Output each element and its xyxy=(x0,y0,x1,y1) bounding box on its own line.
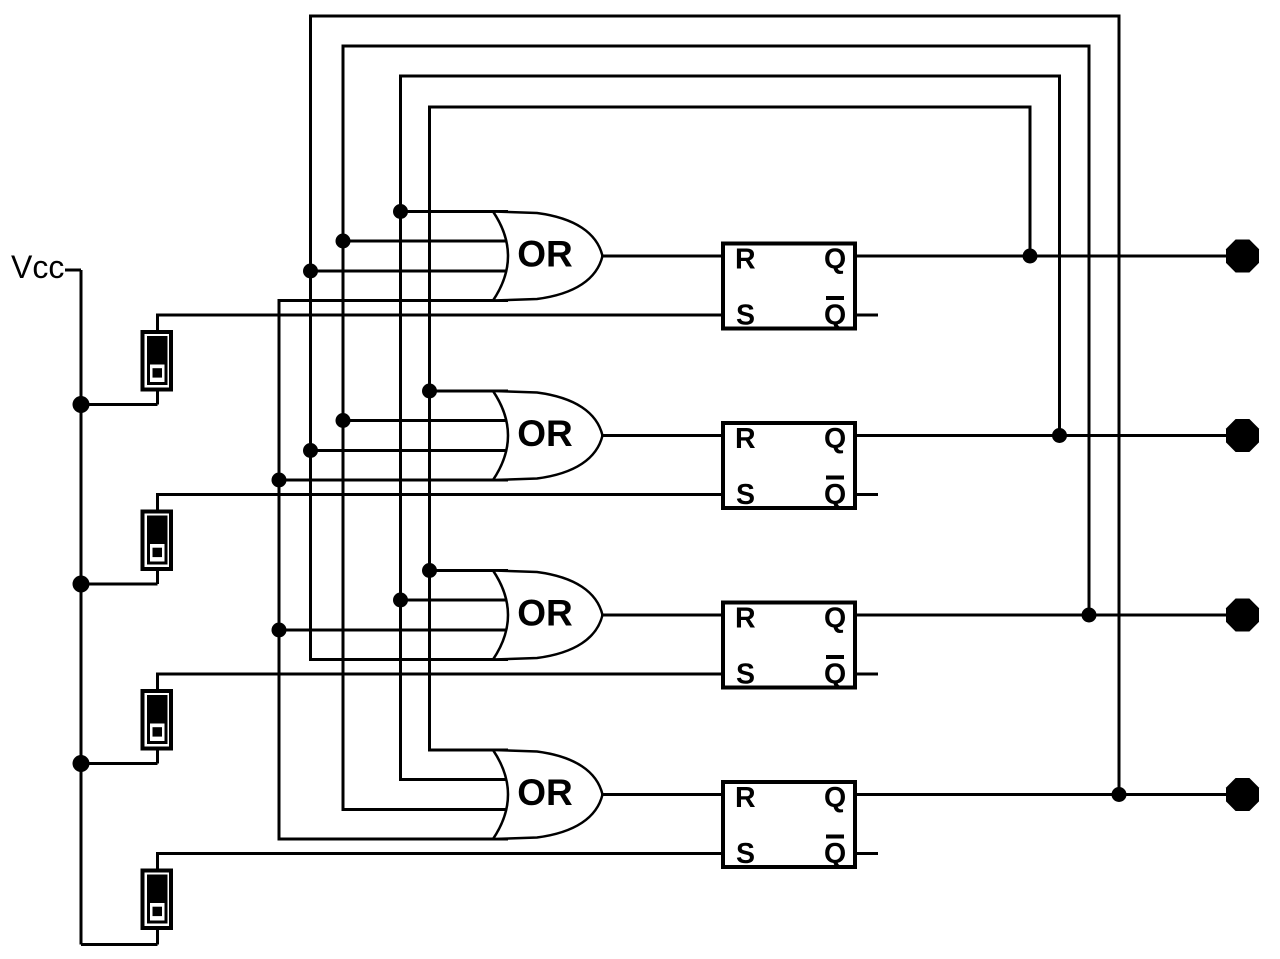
svg-text:Q: Q xyxy=(824,838,846,870)
wire FF3 Qbar stub xyxy=(856,673,878,676)
junction Q3 output pickup xyxy=(1082,608,1097,623)
wire Q2 tap to U3 input xyxy=(401,599,509,602)
junction Q3 tap row1 xyxy=(336,234,351,249)
svg-text:Q: Q xyxy=(824,244,846,276)
junction Q4 tap row2 xyxy=(303,443,318,458)
svg-text:R: R xyxy=(735,244,756,276)
junction bus-SW2 xyxy=(73,576,90,593)
wire Q4 tap to U2 input xyxy=(311,449,509,452)
or-gate U2 xyxy=(493,391,603,480)
wire Q1 tap to U2 input xyxy=(430,390,509,393)
wire U3 output to FF3 R input xyxy=(601,614,722,617)
pushbutton switch SW3 xyxy=(143,691,172,749)
wire bus bottom rail xyxy=(81,943,158,946)
junction Q1 tap row3 xyxy=(422,563,437,578)
sr-latch FF2 xyxy=(723,423,855,511)
svg-text:S: S xyxy=(736,479,755,511)
svg-text:Q: Q xyxy=(824,782,846,814)
junction Q1 tap row2 xyxy=(422,384,437,399)
or-gate U4 xyxy=(493,750,603,839)
wire feedback loop Q4 (up over top, down left, into OR input) xyxy=(311,16,1120,795)
wire SW1 bottom stub xyxy=(156,390,159,405)
wire Vcc stub xyxy=(65,269,81,272)
svg-text:R: R xyxy=(735,782,756,814)
or-gate U1 xyxy=(493,212,603,301)
wire netX to U3 third input xyxy=(279,629,508,632)
wire Q1 tap to U3 input xyxy=(430,569,509,572)
junction Q2 output pickup xyxy=(1052,428,1067,443)
junction Q2 tap row3 xyxy=(393,593,408,608)
output terminal OUT3 xyxy=(1226,599,1259,632)
wire SW3 top stub xyxy=(156,674,159,691)
wire U2 output to FF2 R input xyxy=(601,434,722,437)
svg-text:OR: OR xyxy=(517,234,573,275)
svg-text:S: S xyxy=(736,838,755,870)
wire FF2 Qbar stub xyxy=(856,493,878,496)
junction bus-SW3 xyxy=(73,755,90,772)
wire bus to SW2 xyxy=(81,583,158,586)
svg-text:R: R xyxy=(735,423,756,455)
svg-text:Q: Q xyxy=(824,299,846,331)
wire feedback loop Q2 (up over top, down left, into OR input) xyxy=(401,76,1060,780)
wire FF1 Q output xyxy=(856,255,1244,258)
wire SW2 bottom stub xyxy=(156,570,159,585)
wire SW3 to FF3 S input xyxy=(156,673,722,676)
wire Q4 tap to U1 input xyxy=(311,270,509,273)
pushbutton switch SW2 xyxy=(143,512,172,570)
svg-text:OR: OR xyxy=(517,413,573,454)
wire bus to SW3 xyxy=(81,762,158,765)
svg-text:S: S xyxy=(736,658,755,690)
junction bus-SW1 xyxy=(73,396,90,413)
wire U1 output to FF1 R input xyxy=(601,255,722,258)
junction Q4 tap row1 xyxy=(303,264,318,279)
wire netX to U2 bottom input xyxy=(279,479,508,482)
output terminal OUT2 xyxy=(1226,419,1259,452)
wire netX vertical U1 bottom input to U4 bottom input xyxy=(279,301,508,840)
junction netX-U2 xyxy=(272,473,287,488)
svg-text:R: R xyxy=(735,603,756,635)
wire feedback loop Q1 (up over top, down left, into OR input) xyxy=(430,107,1031,750)
wire SW4 bottom stub xyxy=(156,929,159,945)
pushbutton switch SW4 xyxy=(143,871,172,929)
or-gate U3 xyxy=(493,571,603,660)
output terminal OUT1 xyxy=(1226,240,1259,273)
wire SW3 bottom stub xyxy=(156,749,159,764)
power bus Vcc vertical xyxy=(80,270,83,945)
wire Q3 tap to U1 input xyxy=(343,240,508,243)
wire U4 output to FF4 R input xyxy=(601,793,722,796)
svg-text:OR: OR xyxy=(517,593,573,634)
wire FF4 Q output xyxy=(856,793,1244,796)
sr-latch FF1 xyxy=(723,244,855,332)
wire Q3 tap to U2 input xyxy=(343,419,508,422)
svg-text:Q: Q xyxy=(824,423,846,455)
wire bus to SW1 xyxy=(81,403,158,406)
wire SW4 top stub xyxy=(156,854,159,871)
wire SW2 to FF2 S input xyxy=(156,493,722,496)
wire feedback loop Q3 (up over top, down left, into OR input) xyxy=(343,46,1089,810)
svg-text:S: S xyxy=(736,299,755,331)
junction Q1 output pickup xyxy=(1023,249,1038,264)
wire SW2 top stub xyxy=(156,495,159,512)
sr-latch FF4 xyxy=(723,782,855,870)
junction Q2 tap row1 xyxy=(393,204,408,219)
wire FF3 Q output xyxy=(856,614,1244,617)
wire Q2 tap to U1 input xyxy=(401,210,509,213)
svg-text:OR: OR xyxy=(517,772,573,813)
svg-text:Vcc: Vcc xyxy=(11,249,64,285)
junction Q4 output pickup xyxy=(1112,787,1127,802)
sr-latch FF3 xyxy=(723,603,855,691)
wire FF1 Qbar stub xyxy=(856,314,878,317)
wire SW1 to FF1 S input xyxy=(156,314,722,317)
output terminal OUT4 xyxy=(1226,778,1259,811)
svg-text:Q: Q xyxy=(824,479,846,511)
pushbutton switch SW1 xyxy=(143,332,172,390)
junction netX-U3 xyxy=(272,623,287,638)
wire SW1 top stub xyxy=(156,315,159,332)
wire FF2 Q output xyxy=(856,434,1244,437)
svg-text:Q: Q xyxy=(824,658,846,690)
wire SW4 to FF4 S input xyxy=(156,852,722,855)
wire FF4 Qbar stub xyxy=(856,852,878,855)
svg-text:Q: Q xyxy=(824,603,846,635)
junction Q3 tap row2 xyxy=(336,413,351,428)
